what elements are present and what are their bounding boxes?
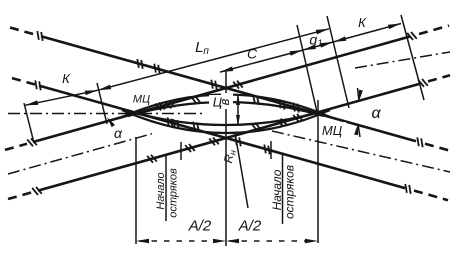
dimension q1 <box>303 42 334 50</box>
joint mark B-bottom x298 <box>293 115 299 122</box>
svg-text:Ц: Ц <box>213 95 223 110</box>
tick point blade on B-bottom left <box>180 142 182 160</box>
wire rail B-top dashed left <box>5 144 27 150</box>
extension line E3 right end of K <box>401 15 424 100</box>
joint mark A-top x140 <box>137 59 139 68</box>
extension line through right MC (A/2 right) <box>317 100 319 243</box>
arrow alpha right down <box>354 124 358 135</box>
joint mark A-bottom x176 <box>173 119 175 128</box>
joint mark A-top x296 <box>293 103 295 112</box>
svg-text:К: К <box>62 71 71 86</box>
joint mark upper inner curve x256 <box>253 95 255 104</box>
label v rotated <box>221 93 233 109</box>
joint mark A-bottom right <box>405 184 407 193</box>
svg-text:остряков: остряков <box>168 168 180 218</box>
wire rail B-bottom dashed left <box>8 192 32 199</box>
centerline bisector <box>8 113 203 115</box>
dimension C <box>220 50 303 72</box>
arrow A/2 far left <box>136 239 149 244</box>
wire rail A-bottom solid <box>39 86 405 189</box>
extension line far left K <box>24 103 34 143</box>
svg-text:МЦ: МЦ <box>322 123 343 138</box>
svg-text:МЦ: МЦ <box>133 94 150 106</box>
arrow A/2 centre left <box>213 239 226 244</box>
svg-text:α: α <box>114 125 123 141</box>
extension line mid (K/Lp boundary) <box>97 83 107 124</box>
svg-text:А/2: А/2 <box>238 218 262 235</box>
wire rail A-top dashed left <box>10 28 37 36</box>
joint mark A-bottom left <box>35 80 37 89</box>
extension line point-blade right <box>282 155 284 224</box>
joint mark upper curve x170 <box>165 102 171 108</box>
joint mark A-top right <box>417 137 419 146</box>
svg-text:остряков: остряков <box>283 165 297 219</box>
dimension K left <box>25 90 98 105</box>
leader line Rn <box>235 133 248 208</box>
wire rail A-bottom dashed right <box>414 191 448 201</box>
joint mark lower inner curve x196 <box>193 122 195 131</box>
extension line point-blade left <box>165 156 167 221</box>
joint mark upper inner curve x196 <box>191 97 197 104</box>
centerline track B left <box>8 134 152 174</box>
slip curve upper outer <box>122 95 330 118</box>
svg-text:Начало: Начало <box>155 172 167 209</box>
joint mark A-bottom x267 <box>264 145 266 154</box>
arrow alpha right up <box>359 90 363 101</box>
joint mark lower curve x170 <box>167 117 170 126</box>
label MC left <box>132 93 153 104</box>
wire rail B-bottom solid <box>38 84 419 191</box>
joint mark upper curve x282 <box>279 99 282 108</box>
extension line E2 (q1/K boundary) <box>327 16 349 108</box>
label C centre <box>209 95 222 109</box>
arrow v down <box>236 115 240 126</box>
joint mark A-top x157 <box>154 64 156 73</box>
joint mark B-top right <box>407 33 413 40</box>
wire rail A-top solid <box>41 36 416 141</box>
joint mark lower curve x282 <box>277 120 283 126</box>
arrow A/2 centre right <box>226 239 239 244</box>
dimension A/2 right shaft <box>229 240 315 242</box>
dimension v line <box>237 95 239 125</box>
joint mark B-top x160 <box>155 104 161 111</box>
wire rail A-bottom dashed left <box>12 78 35 84</box>
svg-text:α: α <box>371 105 381 122</box>
svg-text:К: К <box>358 15 367 30</box>
slip curve upper inner <box>128 102 324 116</box>
joint marks at bottom vertex <box>209 138 215 145</box>
dimension K right <box>333 24 401 43</box>
arrow v up <box>236 94 240 105</box>
dimension A/2 left shaft <box>139 240 223 242</box>
joint marks at top vertex <box>211 80 213 89</box>
joint mark B-bottom x152 <box>147 156 153 163</box>
joint mark B-bottom right <box>418 80 424 87</box>
joint mark B-bottom left <box>32 188 38 195</box>
joint mark B-top left <box>27 139 33 146</box>
dimension Lp <box>98 29 329 90</box>
slip curve lower inner <box>128 111 324 125</box>
svg-text:А/2: А/2 <box>188 218 212 235</box>
wire rail B-bottom dashed right <box>428 75 450 81</box>
label MC right <box>319 122 346 137</box>
svg-text:С: С <box>247 46 258 62</box>
wire rail A-top dashed right <box>425 144 451 151</box>
centerline track A right <box>272 131 450 172</box>
tick point blade on A-bottom right <box>270 141 272 159</box>
extension line E1 (C/q1 boundary) <box>297 25 317 112</box>
wire rail B-top dashed right <box>419 26 449 34</box>
wire rail B-top solid <box>33 37 410 143</box>
node centre axis vertical <box>225 70 227 246</box>
joint mark B-bottom x190 <box>185 145 191 152</box>
arrow alpha left <box>107 117 115 127</box>
joint mark lower inner curve x256 <box>251 123 256 130</box>
extension line through left MC (A/2 left) <box>135 137 137 244</box>
centerline track B right <box>355 52 450 68</box>
slip curve lower outer <box>122 110 330 133</box>
joint mark A-top left <box>37 31 39 40</box>
arrow A/2 far right <box>305 239 318 244</box>
